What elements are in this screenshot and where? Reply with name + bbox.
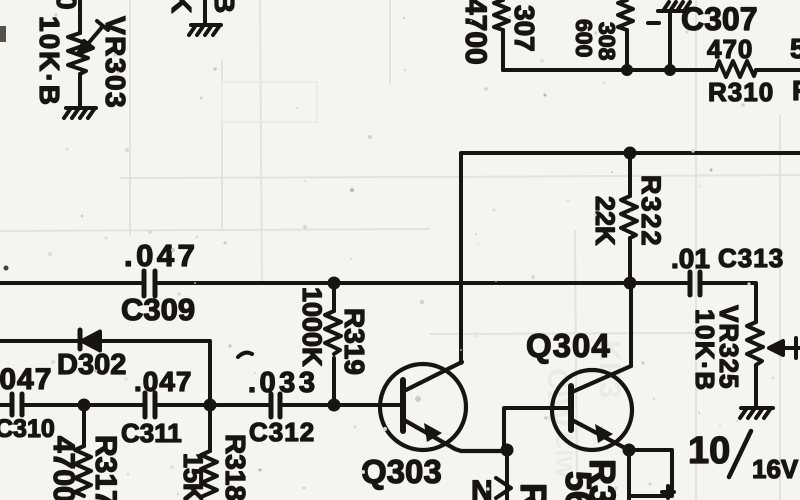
svg-text:C310: C310	[0, 415, 55, 443]
svg-text:B: B	[209, 0, 240, 13]
svg-text:15K: 15K	[178, 453, 208, 500]
svg-text:.033: .033	[248, 367, 318, 399]
wire (left stub to diode)	[0, 339, 78, 343]
wire (emitter to bottom)	[505, 450, 509, 500]
svg-text:16V: 16V	[752, 454, 799, 484]
wire (emitter down)	[627, 450, 631, 500]
svg-text:VR303: VR303	[100, 16, 131, 109]
svg-text:R318: R318	[220, 434, 251, 500]
junction (R322 top)	[624, 147, 637, 160]
svg-text:.047: .047	[134, 366, 193, 397]
mark > (bottom edge)	[496, 478, 511, 498]
wire (stub to ground)	[203, 0, 207, 24]
capacitor C310 .047	[12, 394, 22, 415]
svg-text:10K·B: 10K·B	[690, 309, 720, 392]
diode D302 (pointing left, cathode bar at left)	[80, 330, 100, 351]
label 10/16V	[688, 430, 799, 484]
capacitor C312 .033	[271, 394, 280, 417]
svg-text:N: N	[471, 475, 493, 500]
wire (collector rail y=153)	[461, 153, 800, 363]
resistor R318 15K (cut bottom)	[201, 405, 217, 497]
chassis ground (top, above C307 node)	[648, 2, 690, 70]
wire (top rail y=70)	[503, 68, 716, 72]
junction (R319 top)	[328, 277, 341, 290]
junction (Q304 emitter node)	[623, 444, 636, 457]
transistor Q304	[552, 366, 632, 450]
junction (R322 bottom)	[624, 277, 637, 290]
svg-text:Q304: Q304	[526, 327, 611, 364]
svg-text:10: 10	[688, 430, 730, 472]
svg-text:C307: C307	[681, 1, 758, 37]
potentiometer VR303	[68, 0, 108, 107]
junction (C307 / rail)	[664, 64, 676, 76]
svg-text:.047: .047	[0, 363, 52, 396]
svg-text:C313: C313	[718, 243, 784, 273]
svg-text:R322: R322	[636, 175, 666, 248]
svg-text:.01: .01	[671, 243, 710, 274]
svg-text:600: 600	[571, 19, 597, 57]
svg-text:22K: 22K	[590, 196, 620, 246]
svg-text:R317: R317	[89, 435, 122, 500]
potentiometer VR325	[747, 322, 800, 407]
svg-text:470: 470	[707, 34, 753, 64]
resistor R310 470	[716, 61, 756, 77]
junction (Q303 emitter node)	[501, 444, 514, 457]
transistor Q303	[380, 362, 507, 451]
capacitor C309 .047	[144, 271, 155, 296]
svg-text:56: 56	[558, 471, 599, 500]
ground (below VR303)	[64, 108, 96, 118]
svg-text:5: 5	[790, 33, 800, 64]
svg-text:Q303: Q303	[361, 453, 442, 490]
junction (R319 bottom)	[328, 399, 341, 412]
svg-text:C312: C312	[249, 417, 315, 447]
wire (signal rail y=283)	[0, 281, 141, 285]
wire (Q304 base)	[504, 408, 569, 450]
resistor R319 1000K	[325, 283, 341, 405]
svg-text:10K·B: 10K·B	[34, 16, 65, 107]
svg-text:R: R	[792, 75, 800, 106]
wire (base rail y=405)	[0, 403, 10, 407]
wire (capacitor loop box)	[629, 450, 672, 496]
resistor R308 600 (top, cut)	[618, 0, 633, 70]
svg-text:R319: R319	[339, 308, 370, 375]
svg-text:C311: C311	[121, 418, 182, 448]
svg-text:D302: D302	[57, 349, 126, 381]
wire (Q304 collector)	[629, 283, 633, 366]
junction (R318 / D302)	[204, 399, 217, 412]
svg-text:C309: C309	[121, 292, 195, 327]
svg-text:1000K: 1000K	[297, 287, 327, 367]
svg-text:0: 0	[51, 0, 82, 10]
mark + (electrolytic polarity)	[662, 486, 674, 498]
capacitor C311 .047	[145, 393, 155, 417]
svg-text:.047: .047	[124, 238, 198, 273]
svg-text:R310: R310	[708, 77, 774, 107]
svg-text:4700: 4700	[47, 436, 80, 500]
junction (R317 top)	[78, 399, 91, 412]
svg-text:307: 307	[509, 5, 540, 52]
stray mark (tilde)	[238, 353, 252, 357]
ground (below VR325)	[740, 408, 773, 418]
svg-text:K: K	[166, 0, 197, 13]
bleed-through ghosts	[541, 340, 626, 479]
resistor R322 22K	[621, 153, 637, 283]
capacitor C313 .01	[690, 272, 700, 295]
resistor R317 4700 (cut bottom)	[75, 405, 91, 496]
resistor R307 4700 (top, cut)	[494, 0, 509, 70]
svg-text:4700: 4700	[459, 0, 492, 65]
svg-text:308: 308	[594, 22, 620, 61]
junction (R308 / rail)	[621, 64, 633, 76]
svg-text:R: R	[513, 483, 554, 500]
ground (top middle)	[189, 25, 221, 35]
